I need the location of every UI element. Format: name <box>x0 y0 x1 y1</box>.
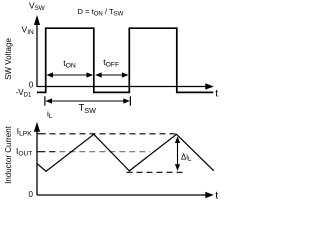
tON span arrow <box>46 72 93 77</box>
top x-axis arrowhead <box>205 83 214 90</box>
top x-axis (time) <box>37 86 207 88</box>
tOFF span arrow <box>95 72 128 77</box>
svg-text:0: 0 <box>29 81 34 90</box>
bottom x-axis arrowhead <box>205 192 214 199</box>
ILPK dashed level line <box>50 133 177 135</box>
SW voltage square wave <box>37 28 213 92</box>
top y-axis arrowhead <box>34 15 40 25</box>
bottom y-axis <box>36 128 38 195</box>
svg-text:SW Voltage: SW Voltage <box>4 38 13 80</box>
svg-text:t: t <box>215 189 218 200</box>
top y-axis <box>36 19 38 87</box>
IOUT black dash <box>49 151 55 153</box>
svg-text:0: 0 <box>29 190 34 199</box>
delta IL arrow <box>175 136 180 171</box>
inductor current triangle wave <box>37 134 214 171</box>
valley dashed level line <box>127 171 185 173</box>
TSW span arrow with end bars <box>45 96 130 105</box>
bottom y-axis arrowhead <box>34 122 40 132</box>
IOUT level tick <box>37 151 45 153</box>
IOUT grey dashed level line <box>59 151 150 153</box>
ILPK level tick <box>37 133 46 135</box>
svg-text:Inductor Current: Inductor Current <box>4 125 13 184</box>
svg-text:t: t <box>215 87 218 99</box>
bottom x-axis (time) <box>37 194 207 196</box>
